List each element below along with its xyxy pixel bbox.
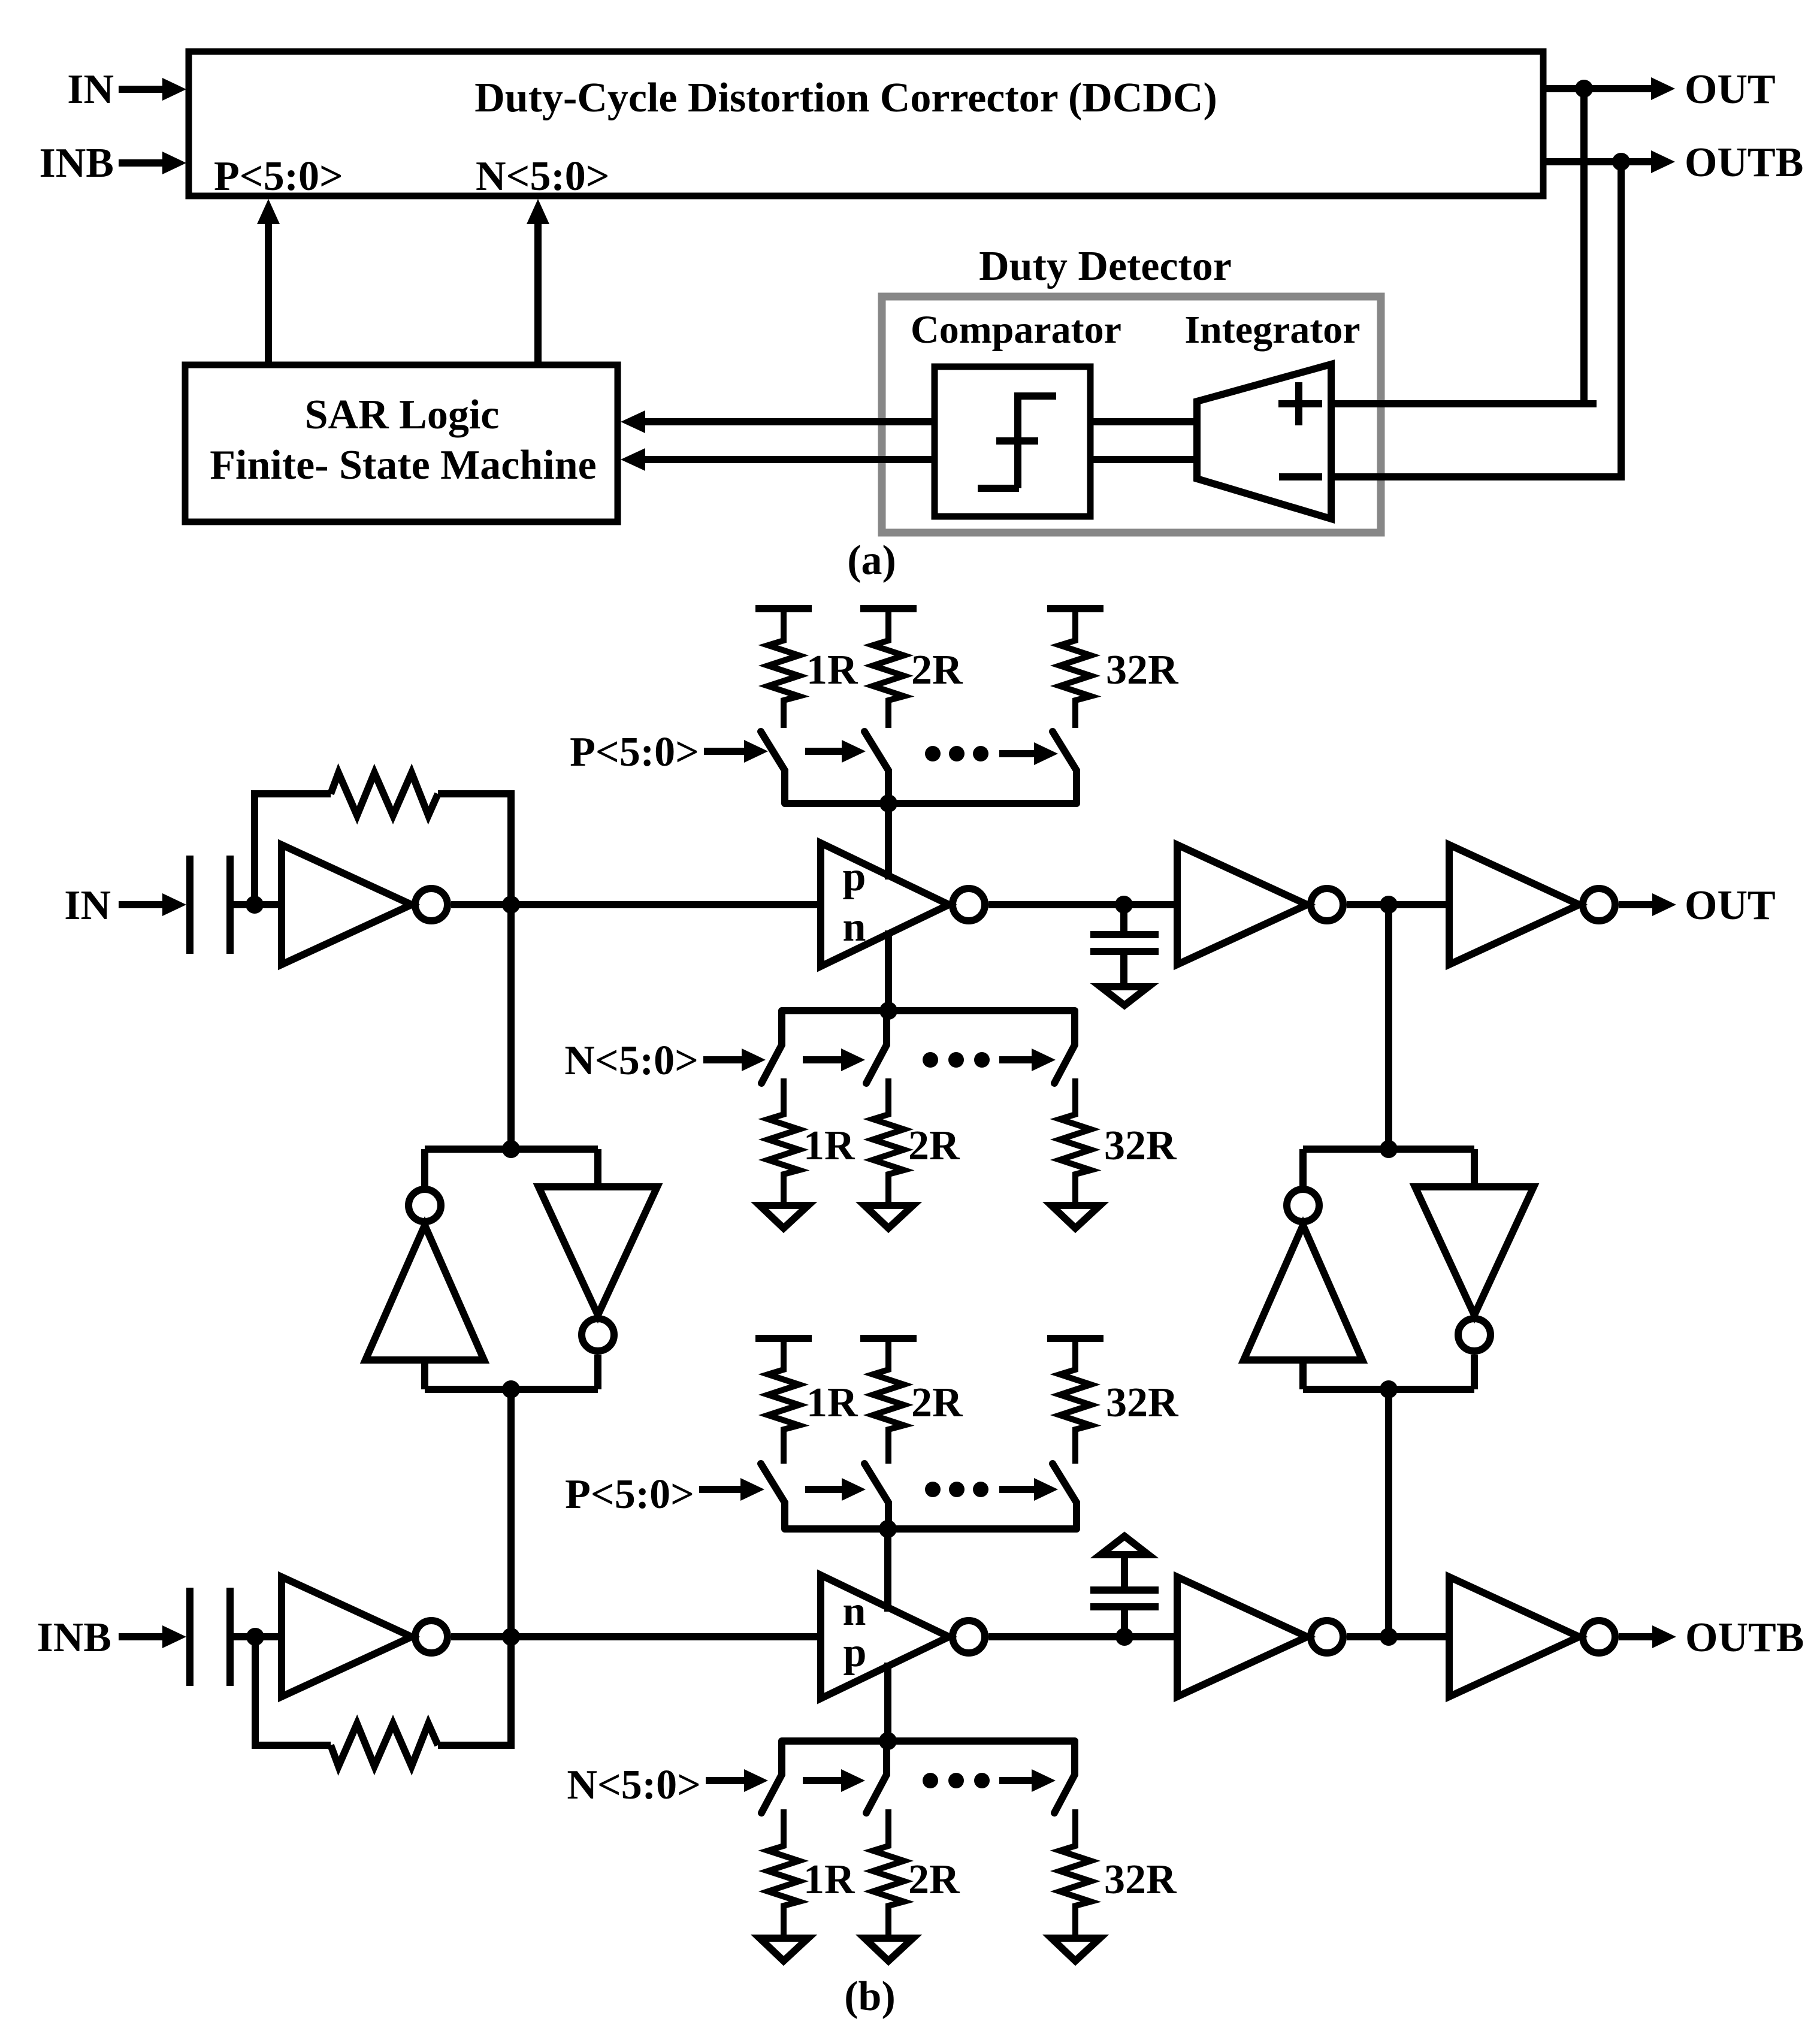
node junction on OUTB line: [1612, 153, 1630, 171]
wire arrow to switch 2 (P top): [805, 740, 866, 763]
svg-text:2R: 2R: [908, 1857, 960, 1903]
wire feedback left vertical top row: [255, 794, 331, 905]
inverter left latch down-pointing: [539, 1149, 657, 1389]
svg-text:P<5:0>: P<5:0>: [570, 729, 699, 775]
switch N bank bottom 1: [761, 1741, 782, 1813]
wire P bus to pn inverter: [885, 803, 892, 880]
inverter U3 (third inverter top row): [1177, 845, 1343, 965]
wire INB input arrow: [119, 152, 186, 174]
node junction on OUT line: [1575, 80, 1593, 98]
node pn output cap junction: [1115, 896, 1133, 914]
resistor 2R of P-bank top: [860, 609, 963, 728]
svg-text:SAR Logic: SAR Logic: [305, 392, 500, 438]
wire comparator to integrator upper: [1090, 418, 1196, 425]
svg-text:1R: 1R: [803, 1123, 855, 1169]
svg-text:p: p: [844, 1630, 867, 1676]
latch right: bottom bus: [1303, 1386, 1474, 1393]
switch P bank top 3: [1053, 732, 1077, 803]
svg-text:N<5:0>: N<5:0>: [476, 153, 610, 200]
svg-text:OUTB: OUTB: [1685, 140, 1803, 186]
wire OUT from DCDC with arrow: [1543, 67, 1776, 113]
node P bus top junction: [879, 794, 897, 812]
inverter U5 (first inverter bottom row): [282, 1577, 448, 1697]
inverter U8 (fourth inverter bottom row): [1449, 1577, 1615, 1697]
ground below 32R N-bank top: [1051, 1205, 1100, 1228]
switch P bank bottom 2: [864, 1464, 888, 1529]
switch P bank bottom 3: [1053, 1464, 1077, 1529]
box duty detector (gray): [882, 297, 1381, 533]
wire input node to inverter 1: [255, 901, 282, 908]
wire comparator output upper to SAR (arrow): [621, 410, 935, 433]
op-amp integrator (left-pointing trapezoid): [1197, 364, 1331, 519]
wire pn inverter to N bus: [885, 930, 892, 1011]
svg-text:32R: 32R: [1104, 1123, 1177, 1169]
svg-text:N<5:0>: N<5:0>: [567, 1762, 701, 1808]
node P bus bottom junction: [879, 1520, 897, 1538]
wire OUTB feedback down to integrator - input: [1331, 162, 1621, 477]
wire N<5:0> arrow to switch 1 (bottom): [706, 1769, 768, 1792]
wire arrow to switch 3 (N top): [999, 1048, 1056, 1071]
wire feedback right side top row: [438, 794, 511, 905]
inverter right latch up-pointing: [1244, 1149, 1362, 1389]
wire OUT arrow (part b): [1619, 882, 1776, 929]
wire np inverter to N bus (bottom): [884, 1663, 891, 1741]
svg-text:2R: 2R: [911, 647, 963, 693]
node input of inverter 5 (junction): [246, 1628, 264, 1646]
resistor 32R of P-bank bottom: [1047, 1338, 1179, 1464]
wire IN input arrow: [119, 78, 186, 101]
switch N bank bottom 2: [866, 1741, 887, 1813]
inverter U4 (fourth inverter top row): [1449, 845, 1615, 965]
wire OUTB from DCDC with arrow: [1543, 140, 1803, 186]
resistor 1R of P-bank top: [755, 609, 858, 728]
latch right: top bus: [1303, 1146, 1474, 1153]
wire INB arrow (part b): [119, 1625, 186, 1648]
node ellipsis dots P bottom: [925, 1482, 988, 1497]
svg-text:Integrator: Integrator: [1184, 308, 1360, 352]
svg-text:OUT: OUT: [1685, 67, 1776, 113]
resistor 32R of N-bank top: [1060, 1078, 1177, 1202]
wire left latch to inverter5 output node: [507, 1389, 515, 1637]
node ellipsis dots P top: [925, 746, 988, 761]
svg-text:N<5:0>: N<5:0>: [564, 1038, 699, 1084]
wire right latch to inverter7 output node: [1385, 1389, 1392, 1637]
ground below 32R N-bank bottom: [1051, 1938, 1100, 1961]
svg-text:Finite- State Machine: Finite- State Machine: [210, 442, 596, 488]
resistor 2R of N-bank bottom: [873, 1809, 960, 1935]
svg-text:IN: IN: [64, 882, 111, 929]
switch N bank bottom 3: [1054, 1741, 1075, 1813]
node ellipsis dots N top: [923, 1052, 990, 1068]
wire comparator to integrator lower: [1090, 456, 1196, 463]
svg-text:n: n: [843, 904, 866, 950]
wire feedback left vertical bottom row: [255, 1637, 331, 1745]
switch P bank bottom 1: [761, 1464, 785, 1529]
wire pn output to inverter 3: [988, 901, 1177, 908]
svg-text:OUTB: OUTB: [1685, 1615, 1804, 1661]
wire OUT feedback down to integrator + input: [1331, 89, 1597, 404]
wire P bus to np inverter: [884, 1529, 891, 1612]
wire P<5:0> bus arrow SAR to DCDC: [257, 199, 280, 365]
wire node A down to left latch: [507, 905, 515, 1149]
wire N bank top bus: [782, 1007, 1075, 1014]
wire arrow to switch 3 (N bottom): [999, 1769, 1056, 1792]
capacitor input coupling bottom row: [190, 1588, 255, 1686]
svg-text:32R: 32R: [1106, 1380, 1179, 1426]
wire input node to inverter 5: [255, 1633, 282, 1640]
resistor 2R of N-bank top: [873, 1078, 960, 1202]
latch left: top bus: [425, 1146, 598, 1153]
svg-text:P<5:0>: P<5:0>: [214, 153, 343, 200]
svg-text:32R: 32R: [1106, 647, 1179, 693]
inverter left latch up-pointing: [365, 1149, 484, 1389]
svg-text:Duty Detector: Duty Detector: [979, 243, 1232, 289]
node inverter1 output (junction): [502, 896, 520, 914]
ground below capacitor top row: [1101, 987, 1148, 1005]
wire feedback right side bottom row: [438, 1637, 511, 1745]
node ellipsis dots N bottom: [923, 1773, 990, 1788]
svg-text:Comparator: Comparator: [911, 308, 1121, 352]
svg-text:Duty-Cycle Distortion Correcto: Duty-Cycle Distortion Corrector (DCDC): [474, 75, 1217, 121]
svg-text:2R: 2R: [911, 1380, 963, 1426]
svg-text:(b): (b): [844, 1973, 896, 2020]
inverter U7 (third inverter bottom row): [1177, 1577, 1343, 1697]
node input of inverter 1 (junction): [246, 896, 264, 914]
svg-text:n: n: [843, 1588, 866, 1634]
node right latch top junction: [1380, 1140, 1398, 1158]
inverter U1 (first inverter top row): [282, 845, 448, 965]
ground below 1R N-bank bottom: [760, 1938, 808, 1961]
svg-text:1R: 1R: [803, 1857, 855, 1903]
svg-text:P<5:0>: P<5:0>: [565, 1471, 694, 1518]
wire P bank top bus: [785, 800, 1077, 807]
wire P<5:0> arrow to switch 1 (bottom): [699, 1478, 764, 1501]
node N bus top junction: [879, 1002, 897, 1020]
wire arrow to switch 3 (P bottom): [999, 1478, 1058, 1501]
inverter right latch down-pointing: [1415, 1149, 1534, 1389]
wire OUTB arrow (part b): [1619, 1615, 1804, 1661]
svg-text:IN: IN: [67, 67, 114, 113]
svg-text:1R: 1R: [806, 1380, 858, 1426]
svg-text:OUT: OUT: [1685, 882, 1776, 929]
wire inverter3 output to inverter4: [1347, 901, 1449, 908]
wire inverter5 output to np inverter: [451, 1633, 821, 1640]
capacitor load bottom row: [1090, 1558, 1159, 1637]
wire IN arrow (part b): [119, 893, 186, 916]
svg-text:32R: 32R: [1104, 1857, 1177, 1903]
switch P bank top 2: [864, 732, 888, 803]
resistor 1R of P-bank bottom: [755, 1338, 858, 1464]
wire arrow to switch 2 (N top): [803, 1048, 865, 1071]
wire node B down to right latch: [1385, 905, 1392, 1149]
wire P bank bottom bus: [785, 1525, 1077, 1533]
wire N<5:0> bus arrow SAR to DCDC: [527, 199, 549, 365]
resistor 32R of N-bank bottom: [1060, 1809, 1177, 1935]
wire np output to inverter 7: [988, 1633, 1177, 1640]
wire inverter1 output to pn inverter: [451, 901, 821, 908]
inverter U2 pn (tunable inverter top row): [821, 843, 985, 966]
resistor feedback top row: [331, 773, 438, 815]
node inverter5 output (junction): [502, 1628, 520, 1646]
block DCDC (Duty-Cycle Distortion Corrector): [189, 52, 1543, 196]
wire comparator output lower to SAR (arrow): [621, 448, 935, 471]
svg-text:1R: 1R: [806, 647, 858, 693]
capacitor input coupling top row: [190, 856, 255, 954]
svg-text:p: p: [843, 854, 866, 900]
resistor feedback bottom row: [331, 1724, 438, 1766]
wire P<5:0> arrow to switch 1: [704, 740, 768, 763]
wire arrow to switch 2 (N bottom): [803, 1769, 865, 1792]
block SAR Logic Finite-State Machine: [185, 365, 618, 522]
node left latch bottom junction: [502, 1380, 520, 1398]
resistor 1R of N-bank top: [768, 1078, 855, 1202]
node right latch bottom junction: [1380, 1380, 1398, 1398]
ground below 1R N-bank top: [760, 1205, 808, 1228]
svg-text:2R: 2R: [908, 1123, 960, 1169]
latch left: bottom bus: [425, 1386, 598, 1393]
svg-text:(a): (a): [847, 537, 896, 584]
wire N<5:0> arrow to switch 1: [703, 1048, 766, 1071]
capacitor load top row: [1090, 905, 1159, 983]
node N bus bottom junction: [879, 1732, 897, 1750]
ground below 2R N-bank top: [864, 1205, 913, 1228]
switch N bank top 2: [866, 1011, 887, 1083]
ground below 2R N-bank bottom: [864, 1938, 913, 1961]
resistor 1R of N-bank bottom: [768, 1809, 855, 1935]
wire arrow to switch 2 (P bottom): [805, 1478, 866, 1501]
block comparator: [911, 308, 1121, 516]
wire inverter7 output to inverter8: [1347, 1633, 1449, 1640]
wire N bank bottom bus: [782, 1737, 1075, 1745]
switch P bank top 1: [761, 732, 785, 803]
svg-text:INB: INB: [40, 140, 114, 186]
node left latch top junction: [502, 1140, 520, 1158]
switch N bank top 1: [761, 1011, 782, 1083]
node np output cap junction: [1115, 1628, 1133, 1646]
switch N bank top 3: [1054, 1011, 1075, 1083]
node inverter7 output junction: [1380, 1628, 1398, 1646]
wire arrow to switch 3 (P top): [999, 742, 1058, 765]
node inverter3 output junction: [1380, 896, 1398, 914]
inverter U6 np (tunable inverter bottom row): [821, 1575, 985, 1698]
symbol hysteresis inside comparator: [978, 396, 1056, 488]
svg-text:INB: INB: [37, 1615, 111, 1661]
resistor 32R of P-bank top: [1047, 609, 1179, 728]
ground above capacitor bottom row (flipped): [1101, 1536, 1148, 1555]
resistor 2R of P-bank bottom: [860, 1338, 963, 1464]
